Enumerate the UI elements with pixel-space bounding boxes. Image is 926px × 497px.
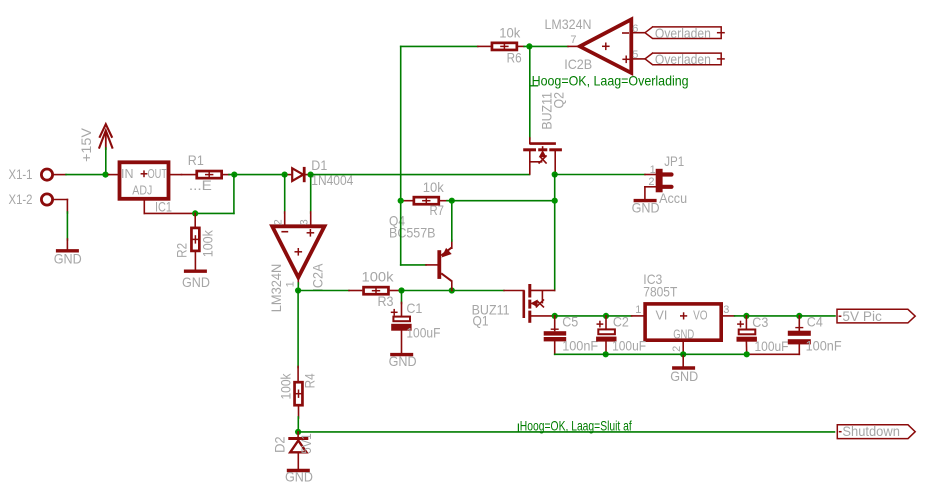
svg-text:R6: R6 [507, 49, 522, 65]
svg-text:X1-2: X1-2 [9, 191, 33, 207]
svg-text:100nF: 100nF [806, 338, 842, 354]
svg-text:Hoog=OK, Laag=Sluit af: Hoog=OK, Laag=Sluit af [520, 418, 632, 434]
wire +15V to node [105, 148, 107, 175]
svg-text:Q1: Q1 [473, 313, 489, 329]
junction Q4 collector node [449, 287, 455, 293]
wire R6 net corner [401, 45, 478, 47]
svg-text:2: 2 [272, 219, 284, 225]
svg-text:3: 3 [299, 219, 311, 225]
svg-text:5V1: 5V1 [298, 433, 314, 454]
svg-text:5V Pic: 5V Pic [842, 308, 882, 324]
wire node to IC2A pin3 [310, 175, 312, 213]
wire D1 cathode to Q2 source [311, 174, 530, 176]
svg-text:Hoog=OK, Laag=Overlading: Hoog=OK, Laag=Overlading [532, 72, 689, 88]
IC2B centre cross [602, 45, 610, 47]
svg-text:1: 1 [285, 281, 297, 287]
net flag Overladen lower [645, 53, 721, 65]
svg-text:100uF: 100uF [755, 338, 789, 354]
IC3 origin cross [680, 315, 687, 317]
junction IC2A output node [295, 287, 301, 293]
svg-text:+15V: +15V [78, 127, 94, 162]
junction accu node [552, 198, 558, 204]
svg-text:VI: VI [656, 309, 668, 323]
wire gate node down to Q2 [529, 46, 531, 139]
regulator IC3 box [645, 304, 721, 340]
svg-text:2: 2 [671, 346, 683, 352]
svg-text:10k: 10k [499, 25, 521, 41]
svg-text:GND: GND [389, 353, 417, 369]
svg-text:3: 3 [723, 304, 729, 316]
wire node to IC2A pin2 [284, 175, 286, 213]
net flag 5V Pic [837, 309, 915, 323]
wire accu node vertical [554, 175, 556, 291]
wire Q2 drain to JP1 [555, 174, 645, 176]
junction +15V node [102, 172, 108, 178]
svg-text:IC1: IC1 [155, 198, 172, 214]
wire output node down to R4 [297, 291, 299, 368]
IC2B minus sign [622, 32, 629, 34]
svg-text:7: 7 [570, 34, 576, 46]
junction C3 bottom [744, 351, 750, 357]
svg-text:GND: GND [670, 368, 698, 384]
ground below R2 [184, 270, 207, 273]
svg-text:IC2B: IC2B [564, 56, 592, 72]
junction C2 bottom [603, 351, 609, 357]
svg-text:JP1: JP1 [664, 153, 684, 169]
junction Q2 drain node [552, 171, 558, 177]
net flag Overladen upper [645, 27, 721, 39]
svg-text:Overladen: Overladen [655, 25, 711, 41]
svg-text:R3: R3 [378, 293, 394, 309]
svg-text:Q2: Q2 [551, 92, 567, 109]
svg-text:GND: GND [54, 250, 82, 266]
svg-text:R4: R4 [302, 373, 318, 388]
svg-text:VO: VO [693, 309, 708, 323]
ground below C1 [390, 353, 413, 356]
wire R6 net vertical [400, 46, 402, 265]
svg-text:100k: 100k [362, 268, 395, 284]
transistor Q1 [522, 290, 525, 318]
IC2B plus sign [622, 58, 630, 60]
svg-text:GND: GND [182, 274, 210, 290]
junction D1 cathode [308, 172, 314, 178]
svg-text:C3: C3 [752, 314, 768, 330]
IC2A plus sign [307, 232, 315, 234]
junction IC3 gnd node [680, 351, 686, 357]
svg-text:C2: C2 [613, 313, 629, 329]
svg-text:GND: GND [632, 199, 660, 215]
svg-text:ADJ: ADJ [132, 183, 152, 197]
junction R7 left node [398, 198, 404, 204]
svg-text:IN: IN [121, 167, 134, 181]
net flag Shutdown [837, 425, 915, 439]
wire R7 to accu node [447, 200, 555, 202]
wire R1 to D1 anode [229, 174, 285, 176]
svg-text:IC2A: IC2A [310, 263, 326, 292]
junction R2 top node [192, 210, 198, 216]
transistor Q4 [437, 250, 441, 279]
svg-text:BC557B: BC557B [389, 225, 436, 241]
svg-text:OUT: OUT [148, 167, 168, 181]
op-amp IC2B [580, 19, 632, 73]
wire shutdown rail [298, 431, 834, 433]
capacitor C3 [745, 316, 747, 330]
IC1 origin cross [141, 173, 148, 175]
wire X1-1 to IC1 IN [66, 174, 109, 176]
pin stub IC2B pin6 [631, 32, 645, 34]
ground below IC3 [672, 366, 695, 369]
wire output node to R3 [298, 290, 349, 292]
ground below D2 [287, 469, 310, 472]
svg-text:100k: 100k [200, 229, 216, 257]
resistor R6 [492, 43, 517, 50]
svg-text:LM324N: LM324N [545, 16, 592, 32]
wire R3 to Q4 collector node [402, 290, 452, 292]
wire pin2 to GND symbol [682, 354, 684, 366]
svg-text:7805T: 7805T [643, 283, 677, 299]
wire ADJ pin down [143, 199, 145, 214]
junction Q2 gate node [526, 43, 532, 49]
wire to Q1 gate [452, 290, 504, 292]
wire X1-2 to GND [66, 200, 68, 214]
ground below X1-2 [56, 249, 79, 252]
supply +15V arrow [100, 124, 112, 137]
svg-text:LM324N: LM324N [268, 264, 284, 313]
connector X1-2 [41, 194, 52, 205]
wire R4 to shutdown node [298, 407, 300, 418]
junction C2 top [603, 313, 609, 319]
wire OUT to R1 [169, 174, 182, 176]
svg-text:10k: 10k [423, 179, 445, 195]
wire ADJ horizontal [144, 212, 194, 214]
wire to Q4 base [401, 264, 426, 266]
svg-text:X1-1: X1-1 [9, 166, 33, 182]
svg-text:1: 1 [635, 304, 641, 316]
svg-text:C5: C5 [562, 313, 578, 329]
junction C1 node [398, 287, 404, 293]
capacitor C1 [401, 291, 403, 304]
junction C4 top [796, 313, 802, 319]
svg-text:GND: GND [285, 469, 313, 485]
wire JP1 pin2 to GND [645, 186, 656, 188]
wire C3 to C4 top [746, 315, 799, 317]
resistor R1 [197, 171, 222, 178]
svg-text:R7: R7 [430, 202, 445, 218]
svg-text:100uF: 100uF [612, 338, 646, 354]
diode D1 [292, 168, 303, 181]
ground below JP1 [634, 199, 657, 202]
wire feedback up to R1 node [233, 175, 235, 214]
capacitor C4 [798, 316, 800, 330]
svg-text:D2: D2 [272, 436, 288, 453]
IC2A centre cross [295, 251, 303, 253]
regulator IC1 box [120, 162, 169, 199]
junction C3 top [743, 313, 749, 319]
svg-text:Shutdown: Shutdown [842, 423, 900, 439]
svg-text:100k: 100k [277, 373, 293, 400]
resistor R3 [364, 287, 389, 294]
wire C2 to IC3 pin1 [606, 315, 632, 317]
capacitor C5 [554, 316, 556, 331]
op-amp IC2A [272, 226, 324, 277]
svg-text:100uF: 100uF [406, 325, 440, 341]
connector X1-1 [41, 169, 52, 180]
resistor R2 [191, 228, 199, 251]
junction R1 output node [231, 172, 237, 178]
capacitor C2 [605, 316, 607, 329]
svg-text:C4: C4 [807, 313, 823, 329]
svg-text:...E: ...E [189, 177, 212, 193]
zener diode D2 [297, 432, 299, 437]
transistor Q2 [530, 142, 556, 145]
svg-text:Accu: Accu [659, 190, 687, 206]
svg-text:1: 1 [650, 164, 656, 176]
pin stub IN [109, 174, 119, 176]
svg-text:R2: R2 [173, 243, 189, 258]
IC2A minus sign [281, 231, 288, 233]
junction Q1 source node [552, 313, 558, 319]
wire C4 to 5V flag [799, 315, 835, 317]
junction shutdown node [295, 429, 301, 435]
wire R6 to IC2B pin7 [524, 45, 568, 47]
resistor R7 [414, 197, 439, 204]
svg-text:Overladen: Overladen [655, 51, 711, 67]
svg-text:D1: D1 [311, 157, 327, 173]
wire IC3 pin2 down [682, 340, 684, 354]
svg-text:100nF: 100nF [562, 338, 598, 354]
svg-text:GND: GND [673, 328, 694, 342]
junction D1 anode [282, 172, 288, 178]
resistor R4 [295, 382, 303, 405]
svg-text:C1: C1 [406, 300, 422, 316]
wire IC3 pin3 out [721, 315, 734, 317]
pin stub IC2B pin5 [631, 58, 645, 60]
junction R7 right node [449, 198, 455, 204]
wire ground rail [555, 353, 747, 355]
wire rail to C2 [555, 315, 606, 317]
svg-text:R1: R1 [188, 152, 204, 168]
wire IC2A output stub [297, 277, 299, 284]
jumper JP1 [656, 169, 663, 193]
